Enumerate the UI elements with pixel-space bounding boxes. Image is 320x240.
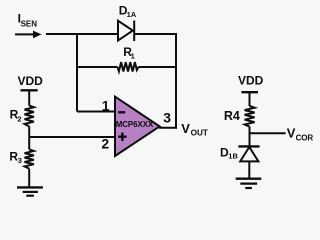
wire D1B to ground	[248, 161, 250, 178]
svg-text:1: 1	[131, 52, 135, 61]
svg-text:3: 3	[18, 156, 22, 165]
wire R2 to R3	[28, 126, 30, 149]
wire output vertical (VOUT node)	[175, 33, 177, 129]
svg-text:3: 3	[163, 110, 171, 126]
wire VDD to R2	[28, 90, 30, 105]
wire R1 left branch	[77, 66, 118, 68]
svg-text:V: V	[181, 121, 190, 136]
svg-text:VDD: VDD	[18, 74, 44, 88]
diode D1A	[118, 21, 134, 42]
ground (right)	[236, 179, 262, 188]
wire top segment B (cathode to corner)	[134, 33, 177, 35]
ground (left)	[17, 187, 43, 195]
svg-text:COR: COR	[296, 133, 314, 142]
svg-text:R4: R4	[224, 109, 240, 123]
diode D1B (cathode bar)	[238, 145, 259, 147]
svg-text:1B: 1B	[228, 152, 238, 161]
wire I_SEN arrow shaft	[15, 33, 35, 35]
diode D1B triangle	[240, 147, 258, 161]
wire top segment A	[46, 33, 118, 35]
resistor R4	[245, 106, 255, 127]
op-amp U1 MCP6XXX	[115, 97, 160, 156]
wire R3 to ground	[28, 169, 30, 188]
wire op-amp output	[159, 127, 177, 129]
svg-text:1A: 1A	[127, 10, 137, 19]
svg-text:2: 2	[17, 114, 21, 123]
svg-text:V: V	[287, 125, 296, 140]
svg-text:OUT: OUT	[191, 129, 208, 138]
op-amp minus sign	[118, 111, 125, 113]
resistor R2	[25, 106, 34, 127]
svg-text:1: 1	[102, 98, 110, 114]
wire op-amp pin 2 input	[29, 136, 114, 138]
wire VDD to R4	[249, 92, 251, 106]
op-amp plus sign	[118, 133, 126, 142]
resistor R1	[118, 62, 139, 71]
resistor R3	[25, 149, 34, 168]
wire op-amp pin 1 input	[77, 111, 115, 113]
svg-text:2: 2	[101, 136, 109, 152]
wire R4 to D1B	[249, 127, 251, 147]
svg-text:SEN: SEN	[21, 19, 38, 28]
svg-text:VDD: VDD	[238, 74, 264, 88]
wire VCOR branch	[250, 132, 286, 134]
I_SEN arrowhead	[33, 31, 42, 39]
node A: feedback junction vertical	[76, 33, 78, 112]
wire R1 right	[138, 66, 177, 68]
svg-text:MCP6XXX: MCP6XXX	[116, 119, 154, 129]
